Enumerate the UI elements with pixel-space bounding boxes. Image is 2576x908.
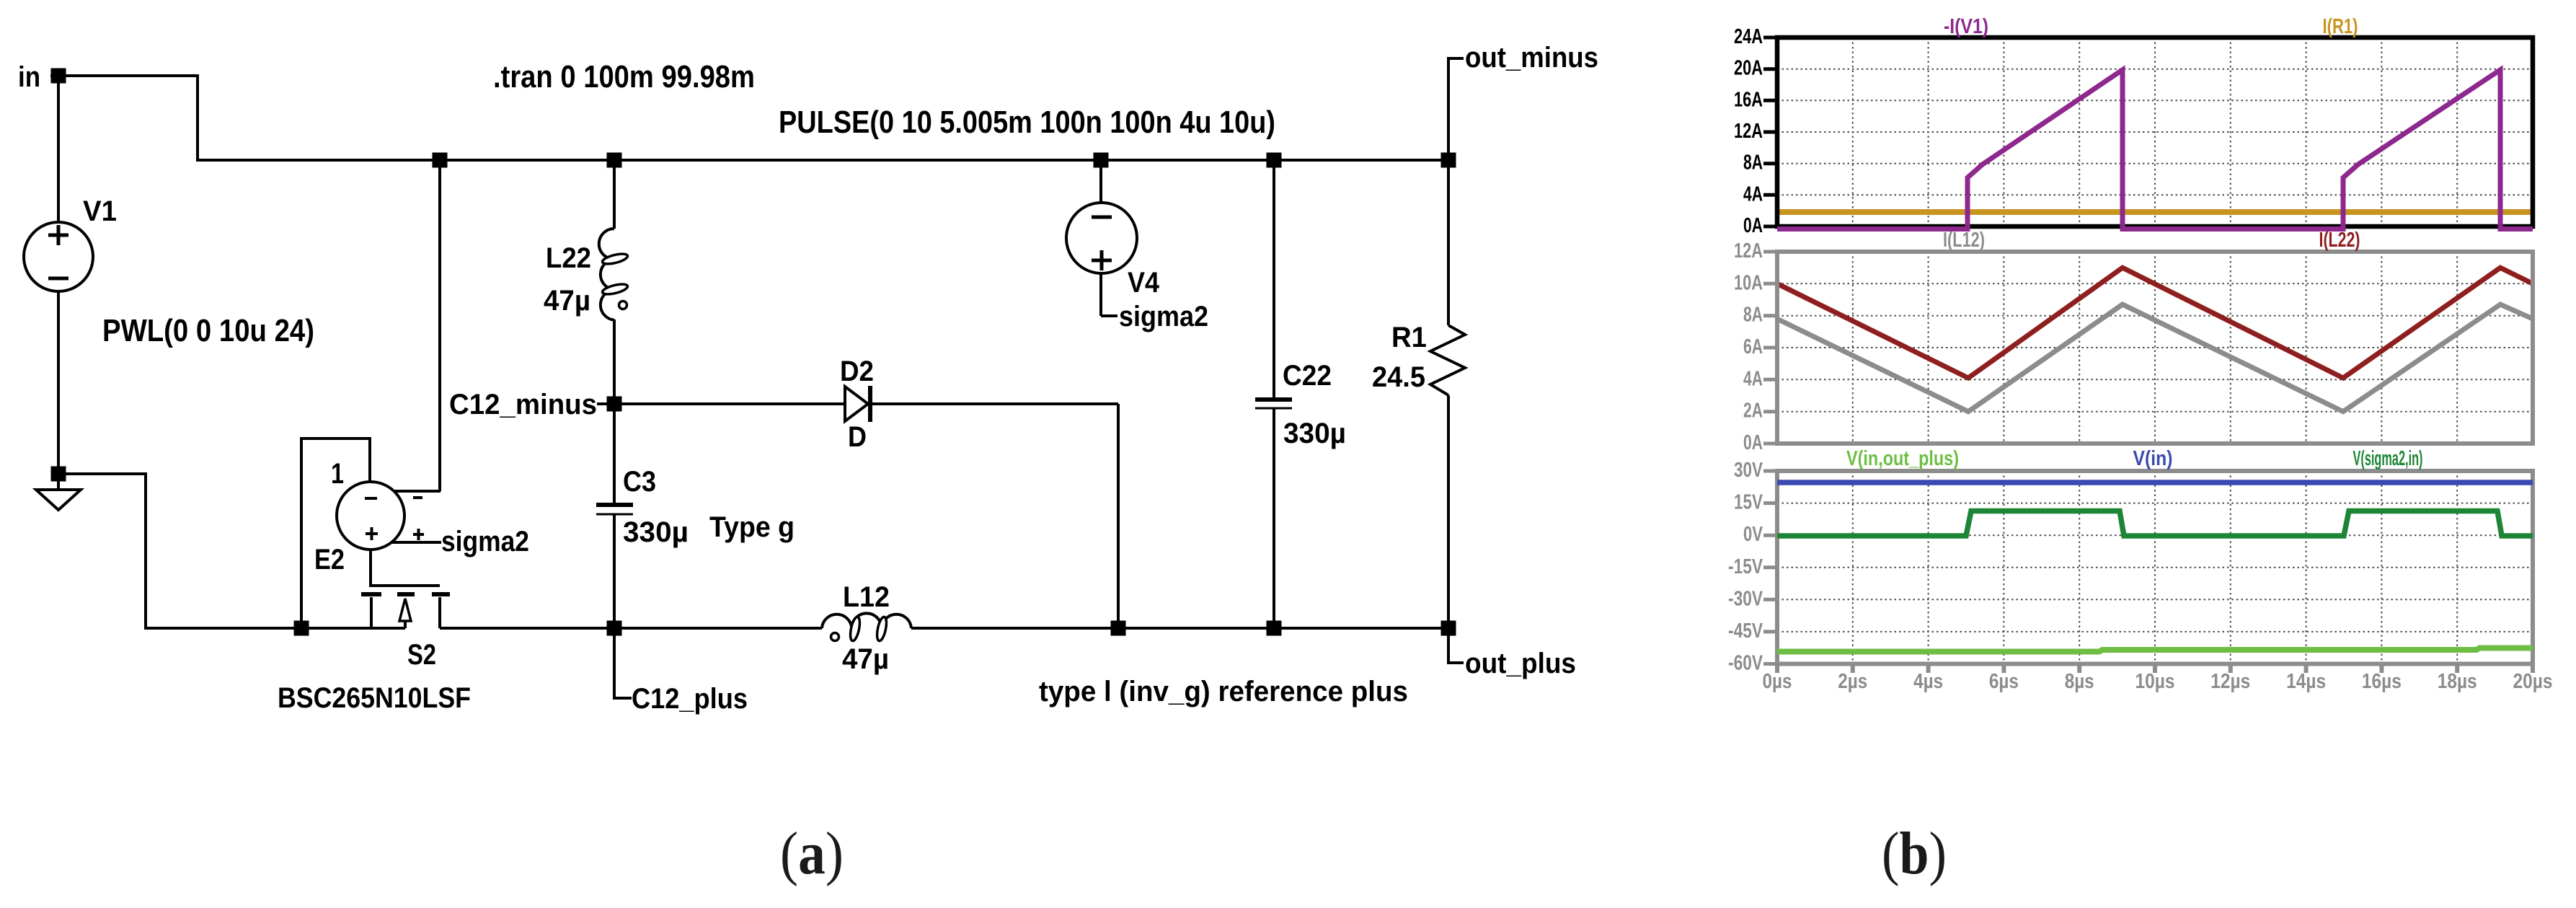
svg-text:I(L12): I(L12): [1943, 229, 1985, 252]
svg-text:330µ: 330µ: [623, 516, 689, 548]
switch S2 gate lead: [371, 550, 440, 586]
wire: bottom rail from switch to L12: [440, 627, 822, 630]
plot panel 3 border: [1777, 471, 2533, 664]
svg-text:8µs: 8µs: [2065, 670, 2094, 693]
svg-text:47µ: 47µ: [544, 285, 590, 317]
svg-text:in: in: [18, 61, 40, 93]
svg-text:(b): (b): [1882, 820, 1947, 887]
svg-text:0A: 0A: [1743, 431, 1763, 454]
svg-text:-45V: -45V: [1728, 620, 1763, 643]
svg-text:47µ: 47µ: [842, 643, 889, 675]
label L12: [843, 581, 890, 613]
plot panel 1 grid: [1777, 38, 2533, 226]
node junction R1 bottom on rail: [1441, 621, 1456, 636]
voltage source V1: [24, 222, 93, 291]
label C3 value 330u: [623, 516, 689, 548]
wire: E2 left feedback loop: [301, 438, 370, 628]
capacitor C22: [1255, 160, 1292, 628]
wire: in node to top rail: [50, 76, 1448, 160]
label L12 value 47u: [842, 643, 889, 675]
label net sigma2 at E2: [441, 526, 529, 557]
svg-text:6A: 6A: [1743, 335, 1763, 358]
label D2: [840, 356, 874, 387]
E2 control plus sign: [413, 529, 424, 540]
label R1: [1391, 322, 1427, 353]
svg-text:14µs: 14µs: [2286, 670, 2326, 693]
trace I(L22) dark red triangle wave: [1777, 268, 2533, 378]
svg-text:24A: 24A: [1734, 25, 1763, 48]
svg-text:10µs: 10µs: [2135, 670, 2175, 693]
legend I(L22): [2319, 229, 2360, 252]
ground symbol: [36, 481, 81, 510]
trace I(R1) constant current: [1777, 209, 2533, 215]
label Type g: [709, 511, 795, 543]
svg-text:8A: 8A: [1743, 151, 1763, 175]
wire: C12_minus row to diode anode: [614, 402, 845, 405]
svg-text:4A: 4A: [1743, 182, 1763, 206]
svg-text:20A: 20A: [1734, 57, 1763, 80]
trace I(L12) gray triangle wave: [1777, 304, 2533, 412]
svg-text:330µ: 330µ: [1283, 418, 1346, 449]
plot panel 1 border: [1777, 38, 2533, 226]
plot panel 3 grid: [1777, 471, 2533, 664]
svg-text:S2: S2: [407, 639, 436, 671]
svg-text:.tran 0 100m 99.98m: .tran 0 100m 99.98m: [493, 59, 755, 94]
inductor L12: [822, 613, 911, 641]
svg-text:Type g: Type g: [709, 511, 795, 543]
label PWL(0 0 10u 24): [102, 313, 314, 348]
svg-text:L12: L12: [843, 581, 890, 613]
svg-text:out_minus: out_minus: [1465, 42, 1598, 74]
node C12_minus junction: [607, 397, 622, 412]
plot panel 1 y axis labels: [1734, 25, 1763, 237]
wire: E2 plus control lead to sigma2: [392, 541, 441, 544]
time axis labels: [1763, 670, 2553, 693]
node: ground junction square: [51, 467, 66, 482]
svg-text:V4: V4: [1128, 267, 1160, 299]
plot panel 2 y axis ticks: [1763, 252, 1779, 444]
wire: C3 bottom to rail: [613, 515, 616, 628]
label R1 value 24.5: [1372, 361, 1425, 393]
node junction C22 top on rail: [1267, 153, 1282, 168]
wire: diode cathode to drop column: [870, 402, 1118, 405]
inductor L22: [599, 160, 629, 404]
E2 control minus sign: [413, 496, 422, 499]
svg-text:L22: L22: [546, 242, 591, 274]
svg-text:(a): (a): [780, 820, 844, 887]
node junction C3 bottom on rail: [607, 621, 622, 636]
legend V(sigma2,in): [2353, 447, 2423, 470]
node junction drain column on top rail: [433, 153, 448, 168]
caption (b): [1882, 820, 1947, 887]
time axis ticks: [1777, 664, 2533, 673]
svg-text:V1: V1: [83, 195, 117, 227]
node junction diode column on rail: [1111, 621, 1126, 636]
svg-text:C12_minus: C12_minus: [449, 389, 597, 420]
wire: E2 minus control lead to drain column: [394, 490, 441, 493]
wire: in node down to V1 plus: [57, 76, 60, 222]
svg-text:V(sigma2,in): V(sigma2,in): [2353, 447, 2423, 470]
svg-text:6µs: 6µs: [1989, 670, 2019, 693]
svg-text:I(R1): I(R1): [2323, 15, 2358, 38]
label L22 value 47u: [544, 285, 590, 317]
svg-text:4µs: 4µs: [1913, 670, 1943, 693]
svg-text:10A: 10A: [1734, 271, 1763, 294]
wire: out_plus stub: [1448, 628, 1464, 663]
behavioral source E2: [337, 482, 404, 550]
switch S2 source terminal: [370, 597, 373, 628]
label C3: [623, 466, 656, 498]
label D2 value D: [848, 421, 867, 453]
label C22: [1283, 360, 1332, 392]
wire: drain column from top rail to E2 minus lead: [438, 160, 441, 491]
svg-text:30V: 30V: [1734, 459, 1763, 482]
svg-text:0µs: 0µs: [1763, 670, 1792, 693]
label S2: [407, 639, 436, 671]
wire: C12_minus to C3 top: [613, 404, 616, 504]
svg-text:16A: 16A: [1734, 88, 1763, 111]
label L22: [546, 242, 591, 274]
svg-text:8A: 8A: [1743, 304, 1763, 327]
legend V(in): [2133, 447, 2173, 470]
svg-text:4A: 4A: [1743, 367, 1763, 390]
svg-text:C3: C3: [623, 466, 656, 498]
plot panel 2 grid: [1777, 252, 2533, 444]
svg-text:2µs: 2µs: [1838, 670, 1867, 693]
trace -I(V1) drawn over border: [1777, 70, 2533, 229]
svg-text:D2: D2: [840, 356, 874, 387]
node junction L22 top on rail: [607, 153, 622, 168]
legend V(in,out_plus): [1846, 447, 1959, 470]
svg-text:type l (inv_g) reference plus: type l (inv_g) reference plus: [1039, 676, 1408, 708]
wire: bottom rail left segment to switch: [301, 627, 405, 630]
plot panel 2 border: [1777, 252, 2533, 444]
label V4: [1128, 267, 1160, 299]
wire: rail from L12 to out_plus corner: [911, 627, 1448, 630]
svg-text:V(in,out_plus): V(in,out_plus): [1846, 447, 1959, 470]
svg-text:-30V: -30V: [1728, 587, 1763, 610]
svg-text:18µs: 18µs: [2438, 670, 2477, 693]
svg-text:20µs: 20µs: [2513, 670, 2553, 693]
legend -I(V1): [1944, 15, 1988, 38]
legend I(L12): [1943, 229, 1985, 252]
svg-text:sigma2: sigma2: [441, 526, 529, 557]
wire: out_minus stub: [1448, 58, 1464, 160]
node junction V4 on top rail: [1094, 153, 1109, 168]
wire: ground node right then down to bottom rail: [58, 474, 301, 628]
svg-text:16µs: 16µs: [2362, 670, 2402, 693]
label type l (inv_g) reference plus: [1039, 676, 1408, 708]
plot panel 3 y axis ticks: [1763, 471, 1779, 664]
diode D2: [845, 386, 870, 422]
label net out_plus: [1465, 648, 1576, 679]
label net out_minus: [1465, 42, 1598, 74]
svg-text:12µs: 12µs: [2210, 670, 2250, 693]
voltage source V4: [1066, 160, 1137, 316]
plot panel 1 y axis ticks: [1763, 38, 1779, 226]
switch S2 body arrow: [399, 599, 411, 628]
svg-text:D: D: [848, 421, 867, 453]
node junction C22 bottom on rail: [1267, 621, 1282, 636]
wire: C12_plus stub: [614, 635, 632, 698]
resistor R1: [1430, 160, 1465, 628]
label net sigma2 at V4: [1119, 301, 1208, 332]
label .tran directive: [493, 59, 755, 94]
svg-text:sigma2: sigma2: [1119, 301, 1208, 332]
svg-text:out_plus: out_plus: [1465, 648, 1576, 679]
svg-text:PWL(0 0 10u 24): PWL(0 0 10u 24): [102, 313, 314, 348]
svg-text:V(in): V(in): [2133, 447, 2173, 470]
svg-text:PULSE(0 10 5.005m 100n 100n 4u: PULSE(0 10 5.005m 100n 100n 4u 10u): [779, 105, 1275, 140]
svg-text:1: 1: [331, 458, 344, 490]
svg-text:-15V: -15V: [1728, 555, 1763, 578]
capacitor C3: [596, 505, 633, 514]
svg-text:0A: 0A: [1743, 214, 1763, 237]
svg-text:12A: 12A: [1734, 239, 1763, 263]
label E2: [314, 544, 345, 576]
svg-text:-60V: -60V: [1728, 652, 1763, 675]
label net C12_plus: [632, 683, 748, 715]
trace V(in,out_plus) light green: [1777, 648, 2533, 652]
label net in: [18, 61, 40, 93]
svg-text:15V: 15V: [1734, 491, 1763, 514]
switch S2 drain terminal: [438, 597, 441, 628]
wire: V1 minus down to ground node: [57, 291, 60, 474]
label BSC265N10LSF: [278, 682, 471, 714]
svg-text:24.5: 24.5: [1372, 361, 1425, 393]
caption (a): [780, 820, 844, 887]
switch S2 channel bars: [361, 592, 450, 596]
svg-text:R1: R1: [1391, 322, 1427, 353]
node junction R1 top on rail: [1441, 153, 1456, 168]
svg-text:BSC265N10LSF: BSC265N10LSF: [278, 682, 471, 714]
svg-text:12A: 12A: [1734, 120, 1763, 143]
svg-text:C22: C22: [1283, 360, 1332, 392]
node junction at E2 branch on bottom rail: [294, 621, 309, 636]
trace V(sigma2,in) dark green pulses: [1777, 511, 2533, 537]
legend I(R1): [2323, 15, 2358, 38]
svg-text:0V: 0V: [1743, 523, 1763, 546]
label C22 value 330u: [1283, 418, 1346, 449]
label net C12_minus: [449, 389, 608, 420]
node in (junction square): [51, 69, 66, 84]
svg-text:C12_plus: C12_plus: [632, 683, 748, 715]
trace V(in) blue constant 24V: [1777, 480, 2533, 485]
label V1: [83, 195, 117, 227]
svg-text:E2: E2: [314, 544, 345, 576]
svg-text:-I(V1): -I(V1): [1944, 15, 1988, 38]
svg-text:2A: 2A: [1743, 400, 1763, 423]
label E2 pin 1: [331, 458, 344, 490]
svg-text:I(L22): I(L22): [2319, 229, 2360, 252]
wire: diode column down to bottom rail: [1117, 404, 1120, 628]
plot panel 2 y axis labels: [1734, 239, 1763, 454]
plot panel 3 y axis labels: [1728, 459, 1763, 675]
label PULSE directive: [779, 105, 1275, 140]
